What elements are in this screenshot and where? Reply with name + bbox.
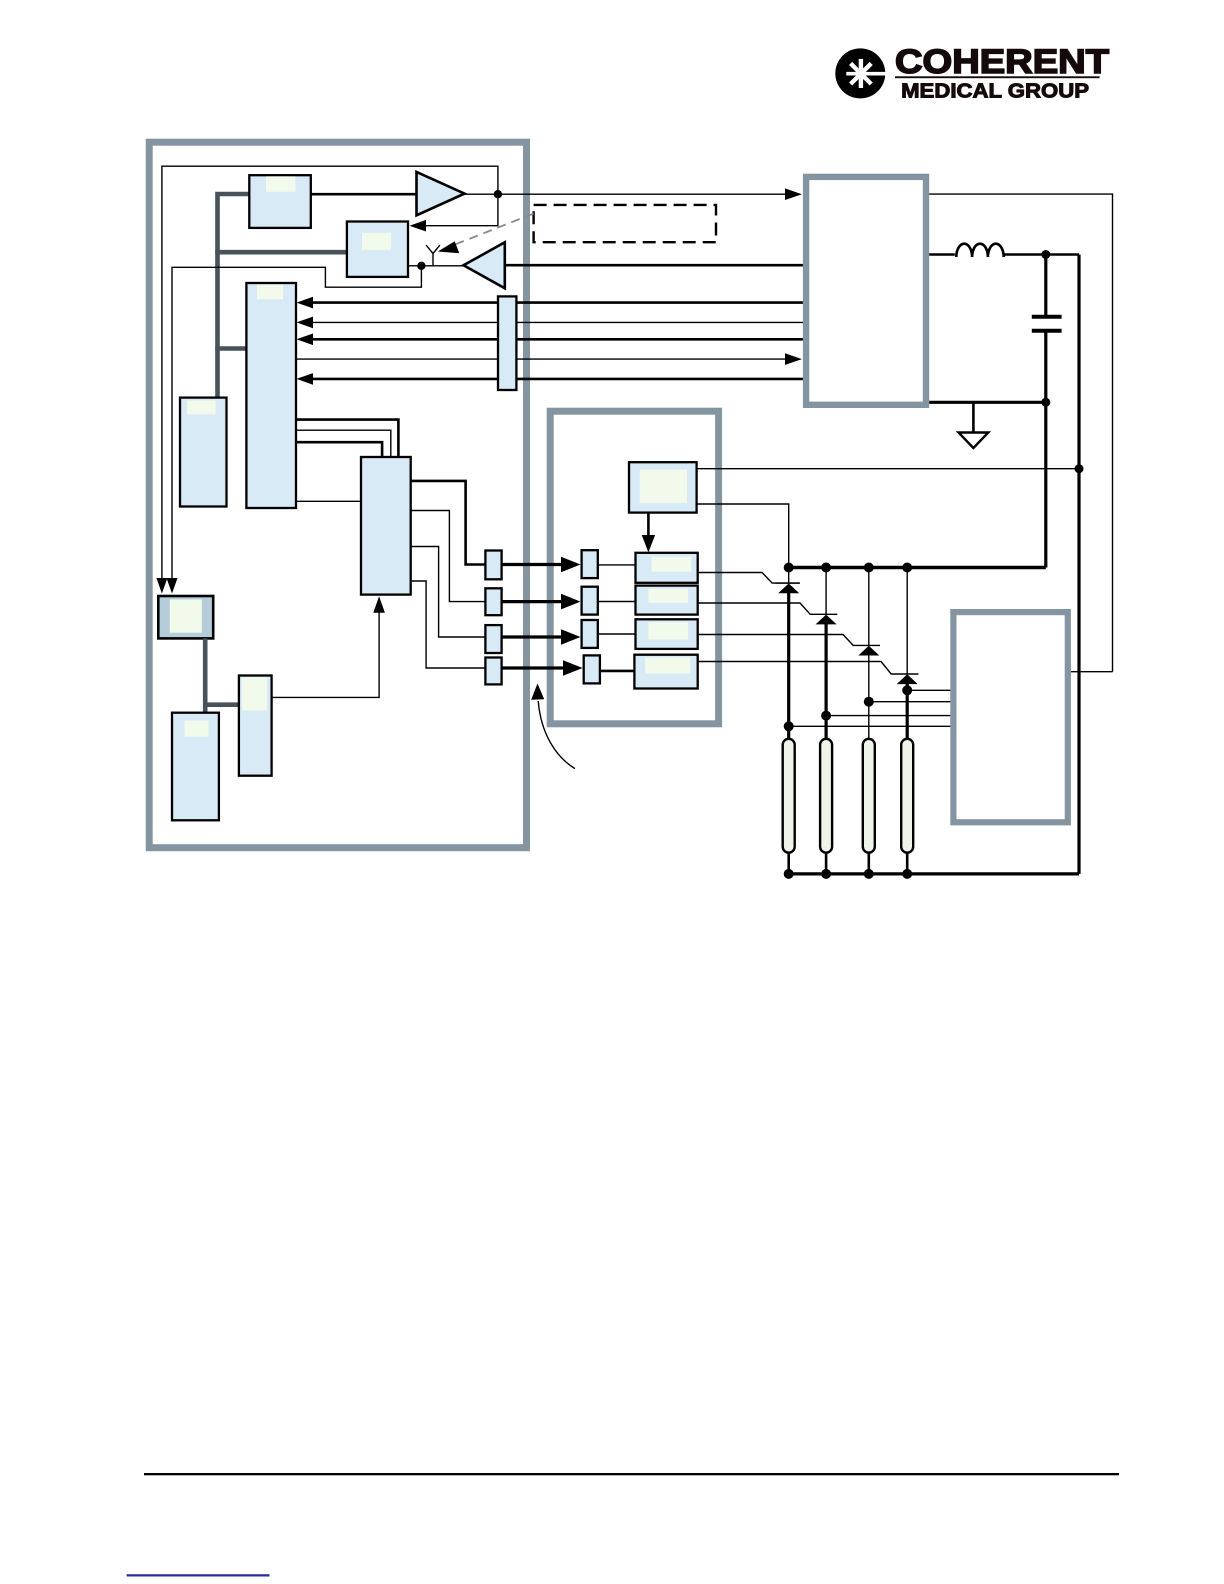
wire (CPU out 1 to block E)	[296, 420, 398, 457]
lamp LP4	[901, 739, 913, 853]
wire (thick gray branch into block B)	[215, 250, 347, 255]
block D (regulator)	[180, 398, 227, 507]
wire (PSU to inductor L1)	[929, 253, 955, 256]
wire (block E out 3 to connector C3)	[411, 547, 486, 638]
CPU block U1 (tall)	[246, 283, 296, 508]
dashed gray leader line	[455, 214, 534, 245]
wire (lamp 2 to cathode bus)	[825, 853, 828, 874]
wire (ground stub)	[972, 402, 975, 431]
ribbon arrow 1 (C1 to interface)	[502, 563, 562, 566]
node (SCR Q1 cathode junction)	[784, 721, 794, 731]
opto U7	[584, 655, 600, 683]
wire (CPU out 3 to block E)	[296, 442, 382, 457]
capacitor C1	[1032, 317, 1062, 331]
block B (modulator)	[347, 222, 408, 277]
block H label area	[185, 721, 209, 737]
svg-text:MEDICAL GROUP: MEDICAL GROUP	[901, 80, 1089, 103]
wire (PSU return/bottom)	[929, 401, 1046, 404]
wire (power supply to buffer U3 input)	[505, 264, 803, 267]
arrowhead of leader line	[438, 241, 460, 253]
node bus junction 2	[821, 563, 831, 573]
arrowhead into power supply	[785, 188, 802, 200]
footer link underline	[127, 1574, 270, 1576]
connector C1	[485, 551, 501, 580]
arrowhead into PSU line4	[785, 353, 802, 365]
driver 2	[636, 586, 698, 615]
arrowhead left into block B	[410, 220, 427, 232]
wire (opto U7 to driver 4)	[600, 670, 635, 673]
logo underline	[895, 76, 1100, 78]
box F label area	[170, 600, 202, 633]
bus line 4 (CPU to PSU)	[296, 358, 790, 360]
wire (opto U6 to driver 3)	[598, 633, 636, 635]
SCR Q4 cathode bar + gate wire from driver 4	[698, 662, 919, 675]
wire (block I down arrow to driver 1)	[647, 513, 650, 538]
SCR Q3 triangle	[858, 646, 879, 656]
node (SCR Q4 cathode junction)	[902, 685, 912, 695]
CPU label area	[257, 285, 283, 300]
lamp LP3	[863, 739, 875, 853]
SCR Q1 triangle	[778, 583, 799, 593]
buffer U2 (right-pointing)	[417, 172, 465, 215]
node (SCR Q3 cathode junction)	[864, 697, 874, 707]
trigger module (bottom right gray box)	[953, 612, 1067, 822]
ribbon arrow 4 (C4 to interface)	[502, 666, 564, 669]
power supply U10 (top right gray box)	[806, 177, 926, 405]
bus line 2 (PSU to CPU)	[309, 321, 803, 323]
buffer U3 (left-pointing)	[464, 242, 505, 288]
SCR Q3 vertical (anode to lamp 3)	[868, 568, 870, 646]
wire (feedback loop top, down to watchdog F)	[162, 166, 498, 581]
node (junction on PSU return)	[1041, 398, 1050, 407]
driver 4 label area	[645, 658, 690, 674]
arrowhead into CPU line1	[297, 297, 314, 309]
SCR Q2 triangle	[816, 615, 837, 625]
arrowhead into CPU line2	[297, 317, 314, 329]
ground symbol	[959, 433, 989, 449]
wire (buffer U3 output into block B, with junction)	[408, 265, 464, 267]
connector C3	[485, 625, 501, 653]
node (junction on buffer output)	[494, 190, 502, 198]
block A label area	[266, 176, 295, 191]
wire (block I output 1 to right rail)	[697, 468, 1079, 470]
wire (CPU out 2 to block E)	[296, 430, 391, 457]
node cathode bus junction 2	[821, 869, 831, 879]
SCR Q4 vertical (anode to lamp 4)	[906, 568, 908, 675]
interface enclosure (middle gray box)	[550, 411, 718, 724]
node cathode bus junction 3	[864, 869, 874, 879]
arrowhead into CPU line5	[297, 373, 314, 385]
wire (from junction down and around into watchdog F)	[172, 266, 421, 581]
SCR Q1 cathode bar	[775, 582, 800, 584]
wire (block I output 2 down to anode bus)	[697, 504, 789, 568]
arrowhead into CPU line3	[297, 334, 314, 346]
node (junction at capacitor top)	[1041, 250, 1050, 259]
wire (right cathode rail vertical)	[1077, 255, 1080, 874]
lamp LP2	[820, 739, 832, 853]
block B label area	[362, 233, 391, 250]
wire (inductor L1 to cathode rail)	[1003, 253, 1079, 256]
wire (PSU top output to right rail)	[929, 194, 1112, 672]
wire (block A output to buffer U2)	[311, 193, 417, 196]
node cathode bus junction 4	[902, 869, 912, 879]
wire (branch from junction into block B)	[414, 194, 498, 226]
wire (opto U5 to driver 2)	[598, 601, 636, 603]
driver 3	[636, 619, 698, 649]
SCR Q1 gate wire from driver 1	[698, 573, 800, 584]
node bus junction 1	[784, 563, 794, 573]
connector C2	[485, 588, 501, 615]
svg-text:COHERENT: COHERENT	[895, 43, 1109, 81]
wire (thick gray branch to block G)	[205, 702, 239, 707]
block I label area	[640, 470, 687, 503]
wire (CPU out 4 to block E left)	[296, 500, 361, 502]
block E (output logic)	[361, 457, 411, 595]
controller enclosure (outer gray box)	[149, 142, 526, 848]
arrowhead down into driver 1	[642, 535, 655, 552]
bus line 5 (PSU to CPU)	[309, 378, 803, 381]
node bus junction 3	[864, 563, 874, 573]
lamp LP1	[783, 739, 795, 853]
wire (trigger box feedback to right rail)	[1071, 671, 1113, 673]
driver 2 label area	[648, 589, 688, 603]
wire (thick gray from block A left, down to block D, branches to B and CPU)	[218, 194, 250, 398]
wire (Q4 cathode to trigger box)	[907, 689, 950, 691]
wire (lamp 1 to cathode bus)	[787, 853, 790, 874]
arrowhead down into box F	[156, 578, 167, 594]
inductor L1	[956, 244, 1003, 257]
cathode bus (bottom)	[789, 872, 1079, 875]
opto U6	[582, 620, 598, 648]
driver 3 label area	[648, 622, 688, 639]
SCR Q2 vertical (anode to lamp 2)	[825, 568, 827, 615]
logo circle	[835, 48, 885, 98]
SCR Q1 vertical (anode to lamp 1)	[788, 568, 790, 584]
arrowhead up into block E	[373, 596, 385, 613]
callout curved arrow	[538, 701, 575, 769]
wire (Q1 cathode to trigger box)	[789, 725, 951, 727]
SCR Q2 cathode bar + gate wire from driver 2	[698, 603, 838, 614]
dashed note box	[534, 205, 716, 242]
wire (Q3 cathode to trigger box)	[869, 701, 951, 703]
SCR Q4 triangle	[897, 674, 918, 684]
wire (opto U4 to driver 1)	[598, 564, 636, 566]
wire (buffer U2 output to power supply)	[465, 193, 791, 195]
logo starburst	[846, 59, 885, 88]
antenna node Y	[426, 245, 440, 266]
ribbon arrow 2 (C2 to interface)	[502, 600, 562, 603]
anode bus (horizontal, feeds SCR anodes)	[789, 566, 1046, 570]
arrowhead down into box F (2nd)	[167, 578, 178, 594]
watchdog box F	[158, 596, 213, 638]
wire (block E out 1 to connector C1)	[411, 481, 486, 565]
wire (thick gray from box F down to block H)	[203, 638, 208, 712]
block G (sense)	[239, 676, 272, 776]
SCR Q3 cathode bar + gate wire from driver 3	[698, 635, 880, 646]
node (junction on U3 output)	[417, 262, 425, 270]
node cathode bus junction 1	[784, 869, 794, 879]
driver 4	[634, 655, 697, 689]
opto U5	[582, 587, 598, 615]
wire (capacitor C1 down to anode bus corner)	[1044, 333, 1047, 568]
block G label area	[242, 677, 267, 710]
wire (junction down to capacitor C1)	[1044, 255, 1047, 316]
wire (block G output up into block E)	[272, 604, 380, 697]
bus line 3 (PSU to CPU)	[309, 338, 803, 341]
block H (monitor)	[172, 713, 219, 821]
node bus junction 4	[902, 563, 912, 573]
node (junction rail with block I wire)	[1075, 464, 1084, 473]
bus line 1 (PSU to CPU)	[309, 301, 803, 304]
wire (block E out 2 to connector C2)	[411, 511, 486, 602]
opto U4	[582, 550, 598, 578]
connector J1 (vertical strip)	[498, 296, 516, 390]
node (SCR Q2 cathode junction)	[821, 711, 831, 721]
driver 1 label area	[652, 557, 692, 572]
footer rule	[144, 1473, 1119, 1475]
wire (lamp 4 to cathode bus)	[906, 853, 909, 874]
wire (lamp 3 to cathode bus)	[867, 853, 870, 874]
connector C4	[485, 658, 501, 685]
block D label area	[187, 401, 216, 415]
wire (thick gray branch into CPU block)	[215, 346, 246, 351]
block A (oscillator)	[249, 175, 310, 228]
block I (interface controller)	[629, 462, 697, 512]
ribbon arrow 3 (C3 to interface)	[502, 635, 562, 638]
wire (block E out 4 to connector C4)	[411, 581, 486, 668]
wire (Q2 cathode to trigger box)	[826, 715, 950, 717]
driver 1	[636, 553, 698, 583]
